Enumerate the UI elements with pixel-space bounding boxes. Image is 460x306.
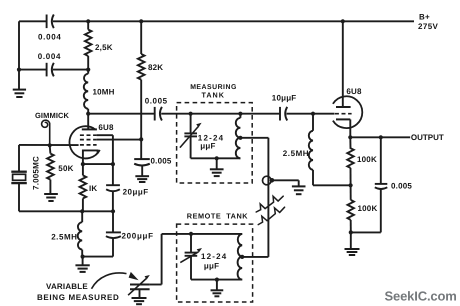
svg-text:μμF: μμF: [204, 262, 219, 271]
svg-text:0.005: 0.005: [145, 97, 168, 106]
svg-text:275V: 275V: [418, 22, 439, 31]
svg-text:REMOTE: REMOTE: [187, 211, 222, 220]
svg-text:6U8: 6U8: [98, 123, 114, 132]
svg-text:2,5K: 2,5K: [95, 43, 113, 52]
svg-text:0.004: 0.004: [38, 32, 62, 41]
svg-text:82K: 82K: [148, 63, 163, 72]
svg-text:50K: 50K: [58, 164, 73, 173]
svg-text:TANK: TANK: [202, 91, 225, 100]
svg-text:B+: B+: [419, 12, 430, 21]
svg-text:IK: IK: [89, 184, 97, 193]
svg-text:0.005: 0.005: [151, 157, 172, 166]
svg-text:100K: 100K: [357, 155, 377, 164]
svg-text:12-24: 12-24: [201, 252, 227, 261]
svg-text:6U8: 6U8: [346, 87, 362, 96]
svg-text:BEING MEASURED: BEING MEASURED: [37, 293, 119, 302]
svg-text:OUTPUT: OUTPUT: [411, 133, 444, 142]
svg-text:VARIABLE: VARIABLE: [46, 282, 88, 291]
svg-text:SeekIC.com: SeekIC.com: [385, 288, 457, 303]
svg-text:10μμF: 10μμF: [272, 93, 297, 102]
svg-text:10MH: 10MH: [93, 87, 115, 96]
svg-text:0.004: 0.004: [38, 52, 62, 61]
svg-text:2.5MH: 2.5MH: [51, 233, 77, 242]
svg-text:200μμF: 200μμF: [122, 231, 154, 240]
svg-text:GIMMICK: GIMMICK: [35, 111, 70, 120]
svg-text:20μμF: 20μμF: [123, 188, 149, 197]
svg-text:μμF: μμF: [200, 142, 215, 151]
svg-text:100K: 100K: [358, 204, 378, 213]
svg-text:7.005MC: 7.005MC: [31, 156, 40, 190]
svg-text:TANK: TANK: [226, 211, 248, 220]
svg-text:0.005: 0.005: [391, 182, 412, 191]
svg-text:2.5MH: 2.5MH: [283, 149, 309, 158]
